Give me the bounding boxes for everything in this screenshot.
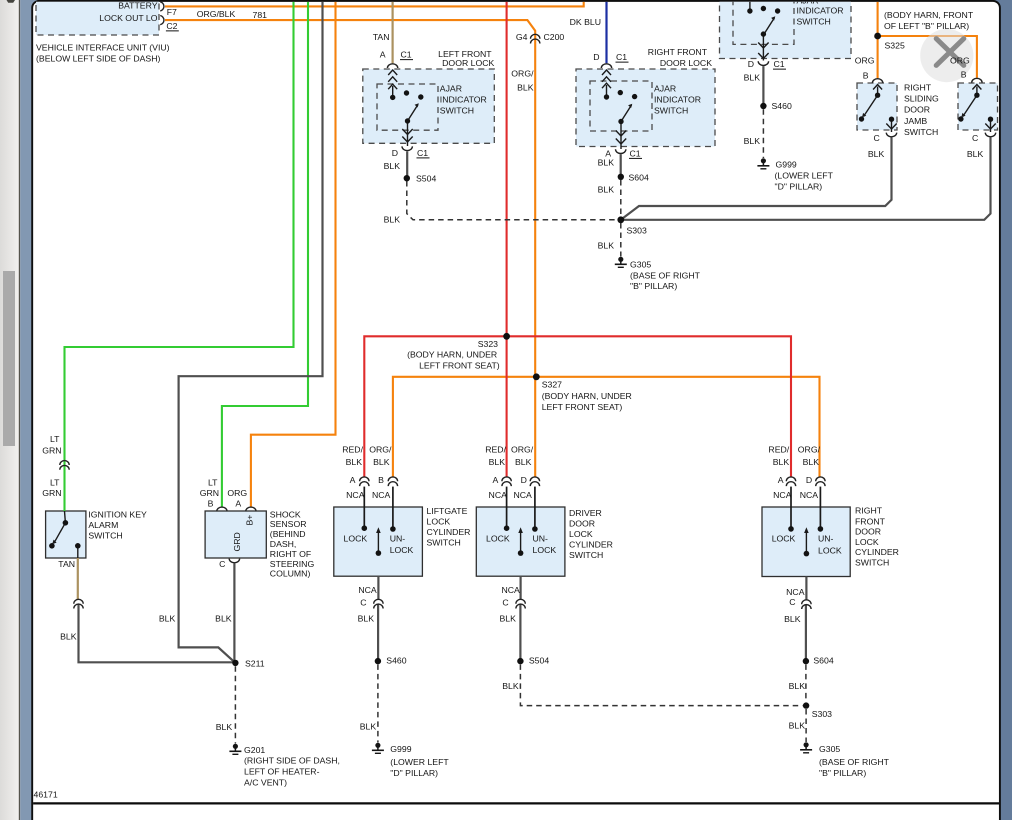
svg-text:BLK: BLK (60, 632, 77, 642)
connector right front door pin D (816, 477, 825, 486)
svg-text:A: A (493, 475, 499, 485)
svg-text:ORG: ORG (855, 56, 875, 66)
dashed wire S504b to S303b (520, 664, 802, 705)
connector liftgate pin B (388, 477, 397, 486)
svg-text:C: C (360, 598, 366, 608)
svg-text:LOCK OUT LO: LOCK OUT LO (99, 13, 157, 23)
left front door ajar switch internals (388, 70, 419, 146)
pin F7 cup on VIU (160, 2, 164, 11)
dashed wire S504 to S303 (407, 181, 618, 220)
wire BLK right front door to S604b (805, 604, 807, 661)
wire ORG/BLK 781 from VIU F7 (165, 2, 584, 7)
connector right front door pin C (802, 600, 811, 609)
pin C cup shock sensor bottom (229, 559, 239, 563)
svg-text:BLK: BLK (358, 614, 375, 624)
svg-text:RED/: RED/ (485, 445, 506, 455)
svg-text:S327: S327 (542, 379, 562, 389)
svg-text:LOCK: LOCK (818, 545, 842, 555)
wire BLK right front door C pigtail (805, 577, 807, 600)
wire TAN ignition switch pigtail (77, 558, 79, 599)
svg-text:BLK: BLK (517, 83, 534, 93)
svg-text:C: C (874, 133, 880, 143)
wire BLK liftgate to S460b (377, 604, 379, 661)
svg-text:D: D (806, 475, 812, 485)
driver door lock cylinder switch box (476, 507, 565, 576)
svg-text:D: D (392, 148, 398, 158)
svg-text:SWITCH: SWITCH (440, 105, 474, 115)
svg-text:NCA: NCA (501, 585, 520, 595)
svg-text:A: A (235, 499, 241, 509)
svg-text:DOOR LOCK: DOOR LOCK (660, 58, 712, 68)
svg-text:BLK: BLK (216, 722, 233, 732)
wire BLK ignition to S211 (79, 604, 236, 662)
svg-text:DASH,: DASH, (270, 539, 297, 549)
shock sensor box (205, 511, 266, 558)
wire BLK right jamb switch C to S303 (624, 137, 991, 219)
svg-text:BLK: BLK (803, 457, 820, 467)
left front ajar indicator inner box (377, 84, 438, 130)
svg-text:ALARM: ALARM (88, 520, 118, 530)
svg-text:S211: S211 (245, 658, 265, 668)
connector in LT GRN wire (60, 461, 69, 470)
pin A cup left front door lock (387, 64, 397, 68)
wire RED/BLK vertical through S323 to driver door A (506, 2, 508, 477)
dashed wire S604 to S303 (620, 180, 622, 217)
svg-text:OF LEFT "B" PILLAR): OF LEFT "B" PILLAR) (884, 21, 969, 31)
svg-text:(BASE OF RIGHT: (BASE OF RIGHT (630, 270, 701, 280)
svg-text:BLK: BLK (789, 681, 806, 691)
node S211 (232, 660, 238, 666)
wire BLK right front door lock A to S604 (620, 154, 622, 177)
svg-text:BLK: BLK (598, 241, 615, 251)
svg-text:C1: C1 (616, 52, 627, 62)
svg-text:ORG: ORG (950, 56, 970, 66)
svg-text:INDICATOR: INDICATOR (797, 5, 844, 15)
svg-text:BLK: BLK (744, 73, 761, 83)
scrollbar thumb (3, 271, 15, 446)
svg-text:B: B (863, 71, 869, 81)
svg-text:SWITCH: SWITCH (797, 16, 831, 26)
svg-text:"B" PILLAR): "B" PILLAR) (630, 281, 677, 291)
svg-text:C2: C2 (166, 21, 177, 31)
right front door lock cylinder switch box (762, 507, 850, 577)
svg-text:ORG: ORG (227, 488, 247, 498)
left scrollbar track (0, 0, 19, 820)
svg-text:B: B (208, 499, 214, 509)
svg-text:BLK: BLK (598, 157, 615, 167)
svg-text:S303: S303 (627, 226, 647, 236)
node S325 (874, 33, 881, 40)
svg-text:C: C (789, 597, 795, 607)
svg-text:(BASE OF RIGHT: (BASE OF RIGHT (819, 757, 890, 767)
svg-text:NCA: NCA (773, 490, 792, 500)
svg-text:S604: S604 (629, 173, 649, 183)
diagram bottom frame line (33, 802, 999, 804)
sliding door ajar switch outer box (720, 0, 852, 59)
svg-text:UN-: UN- (390, 534, 406, 544)
svg-text:RIGHT OF: RIGHT OF (270, 549, 311, 559)
svg-text:(BELOW LEFT SIDE OF DASH): (BELOW LEFT SIDE OF DASH) (36, 53, 160, 63)
svg-text:A/C VENT): A/C VENT) (244, 777, 287, 787)
dashed wire S604b to S303b (805, 664, 807, 702)
svg-text:NCA: NCA (786, 587, 805, 597)
pin B cup left jamb switch (872, 79, 882, 83)
wire BLK driver door C pigtail (519, 576, 521, 599)
wire BLK left jamb switch C to S303 (621, 137, 892, 219)
svg-text:NCA: NCA (372, 490, 391, 500)
svg-text:BLK: BLK (489, 457, 506, 467)
svg-text:BLK: BLK (773, 457, 790, 467)
svg-text:SWITCH: SWITCH (855, 557, 889, 567)
dashed wire S460b to G999b (377, 664, 379, 742)
svg-text:C: C (219, 559, 225, 569)
dashed wire S303 to G305 (620, 223, 622, 257)
close button (920, 29, 973, 82)
left front door lock outer box (363, 69, 495, 143)
node S460 (760, 103, 766, 109)
svg-text:(LOWER LEFT: (LOWER LEFT (775, 171, 834, 181)
left sliding door jamb switch box (857, 83, 897, 130)
svg-text:S504: S504 (529, 656, 549, 666)
svg-text:NCA: NCA (346, 490, 365, 500)
svg-text:RED/: RED/ (768, 445, 789, 455)
svg-text:G999: G999 (776, 160, 797, 170)
node S504b (517, 658, 523, 664)
svg-text:A: A (778, 475, 784, 485)
liftgate lock cylinder switch box (334, 507, 423, 576)
svg-text:G305: G305 (630, 260, 651, 270)
right front door lock cylinder switch internals (791, 487, 820, 554)
ignition key alarm switch box (46, 511, 86, 558)
wire ORG to shock sensor A (251, 2, 336, 507)
svg-text:SWITCH: SWITCH (427, 537, 461, 547)
node S604b (803, 658, 809, 664)
dashed wire S460 to G999 (762, 109, 764, 158)
wire RED/BLK branch S323 horizontal (364, 336, 791, 476)
svg-text:RIGHT: RIGHT (904, 83, 932, 93)
svg-text:LOCK: LOCK (772, 534, 796, 544)
node S504 (404, 175, 410, 181)
svg-text:B+: B+ (245, 515, 255, 526)
wire LT GRN 2 to shock sensor B (222, 2, 308, 507)
svg-text:BLK: BLK (373, 457, 390, 467)
connector in TAN/BLK ignition wire (74, 599, 83, 608)
node S460b (375, 658, 381, 664)
svg-text:UN-: UN- (533, 534, 549, 544)
svg-text:ORG/: ORG/ (511, 445, 534, 455)
pin A cup right front door lock bottom (616, 149, 626, 153)
svg-text:NCA: NCA (358, 585, 377, 595)
svg-text:D: D (593, 52, 599, 62)
connector driver door pin D (530, 477, 539, 486)
wire BLK left front door lock D to S504 (406, 151, 408, 178)
pin D cup right front door lock (601, 64, 611, 68)
svg-text:LT: LT (50, 434, 60, 444)
svg-text:LEFT OF HEATER-: LEFT OF HEATER- (244, 767, 320, 777)
svg-text:CYLINDER: CYLINDER (855, 547, 899, 557)
svg-text:DRIVER: DRIVER (569, 508, 602, 518)
right front door ajar switch internals (602, 70, 632, 149)
svg-text:IGNITION KEY: IGNITION KEY (88, 509, 147, 519)
svg-text:(BEHIND: (BEHIND (270, 529, 306, 539)
svg-text:RIGHT: RIGHT (855, 506, 883, 516)
svg-text:BLK: BLK (384, 215, 401, 225)
svg-text:S604: S604 (813, 656, 833, 666)
svg-text:ORG/: ORG/ (369, 445, 392, 455)
svg-text:DOOR: DOOR (904, 105, 930, 115)
svg-text:BLK: BLK (346, 457, 363, 467)
svg-text:FRONT: FRONT (855, 516, 886, 526)
svg-text:BLK: BLK (598, 184, 615, 194)
svg-text:A: A (380, 50, 386, 60)
svg-text:UN-: UN- (818, 534, 834, 544)
svg-text:SLIDING: SLIDING (904, 94, 939, 104)
svg-text:BLK: BLK (215, 614, 232, 624)
driver door lock cylinder switch internals (507, 487, 535, 553)
ground G201 (229, 744, 241, 755)
dashed wire S303b to G305b (805, 709, 807, 742)
svg-text:INDICATOR: INDICATOR (654, 94, 701, 104)
svg-text:781: 781 (253, 10, 268, 20)
svg-text:C: C (502, 598, 508, 608)
svg-text:GRN: GRN (42, 446, 61, 456)
svg-text:"D" PILLAR): "D" PILLAR) (775, 181, 823, 191)
svg-text:C1: C1 (630, 148, 641, 158)
svg-text:A: A (350, 475, 356, 485)
svg-text:CYLINDER: CYLINDER (569, 539, 613, 549)
pin B cup shock sensor (217, 507, 227, 511)
connector liftgate pin C (374, 599, 383, 608)
left jamb switch internals (862, 85, 897, 133)
svg-text:INDICATOR: INDICATOR (440, 94, 487, 104)
svg-text:B: B (961, 70, 967, 80)
svg-text:LOCK: LOCK (486, 534, 510, 544)
wire BLK driver door to S504b (519, 604, 521, 661)
svg-text:CYLINDER: CYLINDER (427, 527, 471, 537)
svg-text:(LOWER LEFT: (LOWER LEFT (390, 757, 449, 767)
connector C200 (531, 34, 540, 43)
svg-text:G4: G4 (516, 32, 528, 42)
ground G999 (757, 158, 769, 169)
svg-text:F7: F7 (167, 7, 177, 17)
svg-text:RED/: RED/ (342, 445, 363, 455)
svg-text:LOCK: LOCK (427, 516, 451, 526)
svg-text:G305: G305 (819, 744, 840, 754)
svg-text:BLK: BLK (360, 721, 377, 731)
svg-text:B: B (378, 475, 384, 485)
svg-text:AJAR: AJAR (440, 83, 462, 93)
svg-text:BLK: BLK (159, 614, 176, 624)
wire LT GRN 1 to ignition key alarm switch (65, 2, 294, 511)
svg-text:NCA: NCA (800, 490, 819, 500)
svg-text:LIFTGATE: LIFTGATE (427, 506, 468, 516)
wire ORG S325 vertical + branch to both jamb switches (877, 2, 879, 78)
svg-text:GRN: GRN (42, 488, 61, 498)
svg-text:C: C (972, 133, 978, 143)
svg-text:C1: C1 (417, 148, 428, 158)
svg-text:BLK: BLK (384, 161, 401, 171)
svg-text:BLK: BLK (502, 681, 519, 691)
svg-text:C1: C1 (401, 50, 412, 60)
svg-text:G999: G999 (390, 744, 411, 754)
svg-text:TAN: TAN (58, 559, 75, 569)
svg-text:S504: S504 (416, 174, 436, 184)
ground G305b (800, 742, 812, 753)
svg-text:S460: S460 (386, 656, 406, 666)
svg-text:"D" PILLAR): "D" PILLAR) (390, 768, 438, 778)
svg-text:SWITCH: SWITCH (88, 531, 122, 541)
node S303 (617, 216, 624, 223)
svg-text:DK BLU: DK BLU (570, 17, 601, 27)
svg-text:46171: 46171 (34, 789, 58, 799)
svg-text:S323: S323 (478, 339, 498, 349)
pin C cup left jamb switch bottom (886, 133, 896, 137)
svg-text:DOOR: DOOR (855, 527, 881, 537)
svg-text:(RIGHT SIDE OF DASH,: (RIGHT SIDE OF DASH, (244, 756, 340, 766)
svg-text:BLK: BLK (499, 614, 516, 624)
node S323 (503, 333, 510, 340)
svg-text:"B" PILLAR): "B" PILLAR) (819, 768, 866, 778)
right front door lock outer box (576, 69, 715, 147)
svg-text:S303: S303 (812, 709, 832, 719)
svg-text:ORG/: ORG/ (511, 69, 534, 79)
svg-text:SWITCH: SWITCH (654, 105, 688, 115)
svg-text:D: D (748, 59, 754, 69)
scroll arrow remnant top-left (7, 0, 16, 3)
wire DK BLU to right front door lock D (605, 2, 607, 64)
right sliding door jamb switch box (958, 83, 998, 130)
svg-text:STEERING: STEERING (270, 559, 315, 569)
wire BLK liftgate C pigtail (377, 576, 379, 599)
liftgate lock cylinder switch internals (364, 487, 393, 553)
svg-text:LOCK: LOCK (569, 529, 593, 539)
svg-text:DOOR: DOOR (569, 518, 595, 528)
ignition key alarm switch internals (52, 511, 78, 558)
connector liftgate pin A (360, 477, 369, 486)
svg-text:NCA: NCA (514, 490, 533, 500)
svg-text:LOCK: LOCK (390, 545, 414, 555)
right jamb switch internals (961, 85, 995, 133)
svg-text:BLK: BLK (744, 136, 761, 146)
svg-text:S460: S460 (772, 101, 792, 111)
svg-text:BLK: BLK (789, 720, 806, 730)
svg-text:DOOR LOCK: DOOR LOCK (442, 58, 494, 68)
connector driver door pin A (502, 477, 511, 486)
svg-text:SWITCH: SWITCH (904, 127, 938, 137)
svg-text:(BODY HARN, UNDER: (BODY HARN, UNDER (542, 391, 632, 401)
svg-text:LOCK: LOCK (344, 534, 368, 544)
svg-text:G201: G201 (244, 745, 265, 755)
pin D cup left front door lock bottom (402, 146, 412, 150)
connector right front door pin A (786, 477, 795, 486)
node S327 (533, 373, 540, 380)
svg-text:GRN: GRN (200, 488, 219, 498)
sliding door ajar indicator inner box (733, 0, 794, 44)
pin D cup sliding door switch bottom (758, 61, 768, 65)
svg-text:COLUMN): COLUMN) (270, 569, 311, 579)
wire BLK shock sensor C to S211 (233, 563, 235, 663)
svg-text:LOCK: LOCK (855, 537, 879, 547)
svg-text:ORG/BLK: ORG/BLK (197, 9, 236, 19)
svg-text:BLK: BLK (515, 457, 532, 467)
svg-text:BATTERY: BATTERY (118, 0, 157, 10)
svg-text:C200: C200 (544, 32, 565, 42)
svg-text:(BODY HARN, UNDER: (BODY HARN, UNDER (407, 350, 497, 360)
svg-text:VEHICLE INTERFACE UNIT (VIU): VEHICLE INTERFACE UNIT (VIU) (36, 43, 170, 53)
node S303b (803, 702, 809, 708)
svg-text:GRD: GRD (232, 532, 242, 551)
svg-text:TAN: TAN (373, 32, 390, 42)
svg-text:NCA: NCA (489, 490, 508, 500)
VIU box (vehicle interface unit) (36, 0, 159, 35)
ground G999b (372, 743, 384, 754)
svg-text:AJAR: AJAR (654, 83, 676, 93)
divider line (19, 0, 20, 820)
wire BLK gray from top to S211 (179, 2, 323, 663)
svg-text:SENSOR: SENSOR (270, 519, 307, 529)
svg-text:(BODY HARN, FRONT: (BODY HARN, FRONT (884, 10, 974, 20)
pin C2 cup on VIU (160, 16, 164, 25)
svg-text:BLK: BLK (967, 149, 984, 159)
svg-text:SWITCH: SWITCH (569, 550, 603, 560)
pin A cup shock sensor (246, 507, 256, 511)
pin C cup right jamb switch bottom (985, 133, 995, 137)
sliding door ajar switch internals (750, 2, 775, 61)
svg-text:LT: LT (208, 478, 218, 488)
connector driver door pin C (516, 599, 525, 608)
svg-text:ORG/: ORG/ (798, 445, 821, 455)
node S604 (618, 174, 624, 180)
svg-text:LT: LT (50, 478, 60, 488)
svg-text:BLK: BLK (784, 614, 801, 624)
svg-text:RIGHT FRONT: RIGHT FRONT (648, 47, 708, 57)
svg-text:LOCK: LOCK (533, 545, 557, 555)
ground G305 (615, 257, 627, 268)
svg-text:C1: C1 (774, 59, 785, 69)
wire ORG/BLK from VIU C2 through C200 down to S327 / driver door D (165, 20, 535, 477)
pin B cup right jamb switch (972, 78, 982, 82)
svg-text:BLK: BLK (868, 149, 885, 159)
svg-text:D: D (521, 475, 527, 485)
svg-text:SHOCK: SHOCK (270, 509, 301, 519)
right front ajar indicator inner box (590, 81, 652, 131)
dashed wire S211 to G201 (234, 666, 236, 743)
svg-text:LEFT FRONT SEAT): LEFT FRONT SEAT) (419, 361, 500, 371)
svg-text:LEFT FRONT SEAT): LEFT FRONT SEAT) (542, 402, 623, 412)
wire ORG/BLK branch S327 horizontal (393, 377, 820, 477)
wire BLK sliding door switch D to S460 (762, 66, 764, 106)
svg-text:JAMB: JAMB (904, 116, 927, 126)
wire TAN to left front door lock A (392, 2, 394, 64)
svg-text:S325: S325 (885, 41, 905, 51)
